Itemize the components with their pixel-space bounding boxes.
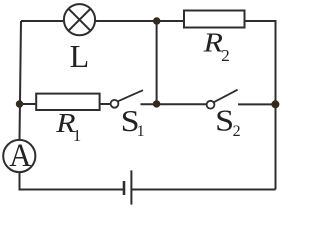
label S1 [121,104,145,140]
lamp L symbol [64,4,95,35]
wire R1 to S1 [100,103,111,105]
wire below ammeter and bottom left [20,173,125,190]
wire left junction to R1 [20,103,38,105]
wire lamp to R2 [96,20,184,22]
svg-text:A: A [9,137,31,173]
svg-text:S: S [215,104,234,138]
svg-text:2: 2 [221,46,230,65]
node right junction [271,100,279,108]
label R2 [203,28,230,64]
battery negative plate (short) [123,181,126,195]
switch S1 [111,90,143,108]
wire S2 to right junction [238,103,272,105]
svg-text:2: 2 [233,123,241,140]
label S2 [215,104,241,140]
resistor R1 [36,94,99,110]
svg-text:R: R [203,28,223,57]
svg-text:1: 1 [137,123,145,140]
svg-text:1: 1 [73,126,82,145]
battery positive plate (long) [130,170,132,204]
node left junction [16,100,23,107]
wire left vertical upper [20,21,22,140]
svg-text:L: L [70,38,90,74]
wire vertical from top junction [156,21,158,104]
resistor R2 [184,11,245,28]
wire top-left horizontal [21,20,63,22]
wire S1 to S2 through middle junction [141,103,207,105]
switch S2 [207,90,238,109]
wire R2 to right side, right vertical [245,21,276,190]
label R1 [55,109,81,145]
node top junction [153,17,160,24]
wire battery to bottom right [131,189,275,191]
node middle junction [153,100,160,107]
ammeter A [3,137,35,173]
